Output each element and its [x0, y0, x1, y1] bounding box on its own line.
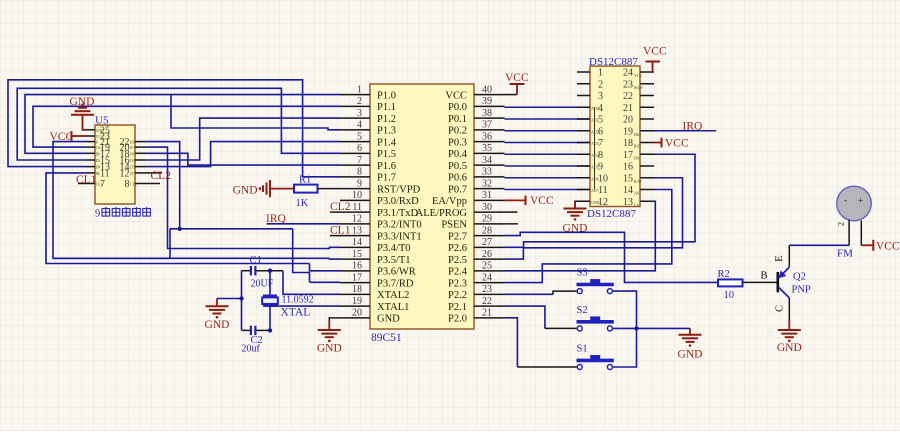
svg-text:37: 37	[482, 120, 492, 131]
svg-text:P3.5/T1: P3.5/T1	[377, 255, 411, 266]
svg-text:12: 12	[120, 168, 130, 179]
89C51 pin 13 P3.3/INT1	[340, 235, 370, 237]
DS12C887 pin 20	[640, 118, 654, 120]
DS12C887 pin 14	[640, 189, 654, 191]
svg-text:P1.3: P1.3	[377, 126, 396, 137]
svg-text:-: -	[844, 195, 847, 205]
power VCC at FM	[861, 244, 873, 246]
89C51 pin 22 P2.1	[474, 305, 505, 307]
svg-text:8: 8	[357, 167, 362, 178]
net label CL2 (pin11)	[330, 211, 340, 213]
svg-text:AD7: AD7	[591, 188, 599, 193]
89C51 pin 39 P0.0	[474, 105, 505, 107]
89C51 U? chip body	[370, 84, 474, 329]
DS12C887 pin 22	[640, 95, 654, 97]
svg-text:19: 19	[352, 296, 362, 307]
svg-text:VCC: VCC	[876, 240, 900, 252]
svg-text:P0.4: P0.4	[448, 149, 468, 160]
DS12C887 pin 21	[640, 106, 654, 108]
svg-text:22: 22	[482, 296, 492, 307]
wire S2 right	[613, 327, 637, 329]
svg-text:P2.2: P2.2	[448, 290, 467, 301]
svg-text:VCC: VCC	[50, 131, 74, 143]
U5 pin 20	[135, 146, 145, 148]
DS12C887 pin 13	[640, 200, 654, 202]
wire riser x292.7 to P3.7	[293, 229, 310, 282]
svg-text:P2.6: P2.6	[448, 243, 467, 254]
svg-text:4: 4	[357, 120, 362, 131]
svg-text:GND: GND	[777, 342, 802, 354]
svg-text:E: E	[774, 255, 785, 261]
svg-text:P3.0/RxD: P3.0/RxD	[377, 196, 419, 207]
DS12C887 pin 18	[640, 142, 654, 144]
svg-text:S2: S2	[577, 305, 588, 316]
svg-text:AD5: AD5	[591, 165, 599, 170]
svg-text:7: 7	[357, 155, 362, 166]
89C51 pin 11 P3.1/TxD	[340, 211, 370, 213]
svg-text:14: 14	[352, 237, 362, 248]
svg-text:P2.3: P2.3	[448, 278, 467, 289]
svg-text:GND: GND	[70, 96, 95, 108]
transistor Q2	[776, 272, 779, 292]
svg-text:DS12C887: DS12C887	[589, 56, 638, 68]
svg-text:12: 12	[352, 214, 362, 225]
junction	[178, 227, 182, 231]
89C51 pin 8 P1.7	[340, 176, 370, 178]
svg-text:D3: D3	[130, 159, 135, 163]
svg-text:24: 24	[623, 68, 633, 79]
svg-text:D5: D5	[130, 166, 135, 170]
DS12C887 pin 2	[577, 83, 590, 85]
svg-text:GND: GND	[377, 314, 400, 325]
89C51 pin 14 P3.4/T0	[340, 246, 370, 248]
89C51 pin 27 P2.6	[474, 246, 505, 248]
89C51 pin 31 EA/Vpp	[474, 199, 505, 201]
svg-text:P0.0: P0.0	[448, 102, 467, 113]
svg-text:23: 23	[482, 284, 492, 295]
wire U5 pin22 drop to y228.8	[145, 142, 180, 229]
wire P0.5 (pin34) to DS12C887 pin9	[505, 165, 591, 167]
svg-text:DS12C887: DS12C887	[587, 208, 636, 220]
svg-text:AD4: AD4	[591, 153, 599, 158]
svg-text:18: 18	[623, 138, 633, 149]
svg-text:P1.4: P1.4	[377, 137, 397, 148]
U5 pin 12	[135, 172, 145, 174]
DS12C887 pin 15	[640, 177, 654, 179]
svg-text:CL2: CL2	[151, 170, 172, 182]
U5 pin 14	[135, 166, 145, 168]
net label IRQ at DS pin19	[654, 130, 716, 132]
svg-text:1K: 1K	[296, 198, 309, 209]
svg-text:11: 11	[598, 185, 608, 196]
U5 pin 15	[86, 159, 95, 161]
svg-text:RST: RST	[634, 144, 642, 149]
svg-text:11: 11	[352, 202, 362, 213]
89C51 pin 36 P0.3	[474, 141, 505, 143]
wire P0.2 (pin37) to DS12C887 pin6	[505, 130, 591, 132]
89C51 pin 33 P0.6	[474, 176, 505, 178]
ground at DS pin12	[575, 201, 577, 208]
svg-text:Q2: Q2	[793, 272, 806, 283]
ground at pin20	[329, 318, 340, 321]
svg-text:17: 17	[352, 272, 362, 283]
wire P0.6 (pin33) to DS12C887 pin10	[505, 177, 591, 179]
svg-text:13: 13	[623, 197, 633, 208]
89C51 pin 30 ALE/PROG	[474, 211, 505, 213]
svg-text:89C51: 89C51	[371, 332, 402, 344]
svg-text:ALE/PROG: ALE/PROG	[416, 208, 468, 219]
power VCC at U5 pin23	[72, 135, 87, 137]
power VCC at DS pin24	[652, 62, 654, 73]
U5 pin 25	[86, 129, 95, 131]
wire P1.1(pin2) to U5 pin19 loop	[33, 106, 340, 147]
89C51 pin 35 P0.4	[474, 152, 505, 154]
svg-text:24: 24	[482, 272, 492, 283]
89C51 pin 12 P3.2/INT0	[340, 223, 370, 225]
power VCC at pin40	[516, 84, 518, 95]
svg-text:25: 25	[482, 261, 492, 272]
svg-text:P1.7: P1.7	[377, 173, 396, 184]
svg-text:P3.7/RD: P3.7/RD	[377, 278, 414, 289]
svg-text:P1.5: P1.5	[377, 149, 396, 160]
wire P2.7(pin28) to R2	[505, 232, 719, 282]
svg-text:VCC: VCC	[530, 195, 554, 207]
svg-text:P3.6/WR: P3.6/WR	[377, 267, 416, 278]
wire P3.5 jog to pin15	[330, 257, 341, 260]
svg-text:10: 10	[352, 190, 362, 201]
U5 pin 17	[86, 152, 95, 154]
svg-text:9: 9	[357, 178, 362, 189]
DS12C887 pin 11	[577, 189, 590, 191]
svg-text:VCC: VCC	[665, 137, 689, 149]
svg-text:19: 19	[623, 126, 633, 137]
svg-text:P0.1: P0.1	[448, 114, 467, 125]
DS12C887 pin 19	[640, 130, 654, 132]
svg-text:35: 35	[482, 143, 492, 154]
svg-text:IRQ: IRQ	[266, 213, 287, 225]
junction buttons gnd	[634, 326, 638, 330]
svg-text:GND: GND	[205, 319, 230, 331]
svg-text:15: 15	[623, 173, 633, 184]
svg-text:33: 33	[482, 167, 492, 178]
svg-text:AS: AS	[634, 191, 639, 196]
svg-text:VCC: VCC	[634, 73, 643, 78]
wire R2 to Q2 base	[743, 281, 777, 283]
svg-text:P2.4: P2.4	[448, 267, 468, 278]
wire P1.2(pin3) to U5 pin16	[145, 118, 340, 160]
wire S3 right down to S1 right	[613, 291, 637, 367]
svg-text:PNP: PNP	[792, 285, 811, 296]
DS internal AD bus line	[594, 107, 596, 189]
89C51 pin 3 P1.2	[340, 117, 370, 119]
wire DS pin14 to P2.3(pin24)	[505, 190, 672, 283]
wire P1.0(pin1) to U5 pin17 loop	[25, 95, 340, 154]
DS12C887 pin 6	[577, 130, 590, 132]
wire U5 pin20 to P3.4(pin14)	[145, 147, 340, 248]
svg-text:GND: GND	[678, 349, 703, 361]
svg-text:27: 27	[482, 237, 492, 248]
resistor R1	[294, 185, 318, 193]
wire P0.3 (pin36) to DS12C887 pin7	[505, 142, 591, 144]
ground at crystal	[239, 296, 243, 300]
pin30 stub ext	[505, 211, 518, 213]
svg-text:IRQ: IRQ	[683, 121, 704, 133]
U5 pin 18	[135, 152, 145, 154]
junction C1 right	[268, 269, 272, 273]
89C51 pin 38 P0.1	[474, 117, 505, 119]
FM lead 2	[860, 221, 862, 246]
svg-text:9: 9	[95, 209, 100, 220]
svg-text:S3: S3	[577, 268, 588, 279]
89C51 pin 9 RST/VPD	[340, 188, 370, 190]
svg-text:P1.0: P1.0	[377, 90, 396, 101]
wire to P3.7(pin17)	[310, 281, 341, 283]
89C51 pin 21 P2.0	[474, 317, 505, 319]
svg-text:3: 3	[357, 108, 362, 119]
DS12C887 pin 9	[577, 165, 590, 167]
DS12C887 pin 24	[640, 71, 654, 73]
89C51 pin 20 GND	[340, 317, 370, 319]
svg-text:R2: R2	[718, 269, 730, 280]
svg-text:VCC: VCC	[643, 46, 667, 58]
svg-text:PSEN: PSEN	[441, 220, 467, 231]
wire P0.1 (pin38) to DS12C887 pin5	[505, 118, 591, 120]
svg-text:5: 5	[357, 131, 362, 142]
89C51 pin 34 P0.5	[474, 164, 505, 166]
DS12C887 pin 12	[577, 200, 590, 202]
wire pin40 to VCC	[505, 94, 518, 96]
svg-text:14: 14	[623, 185, 633, 196]
svg-text:P3.2/INT0: P3.2/INT0	[377, 220, 422, 231]
svg-text:SQW: SQW	[634, 85, 643, 90]
svg-text:P0.3: P0.3	[448, 137, 467, 148]
89C51 pin 1 P1.0	[340, 94, 370, 96]
wire P3.5(pin15) long run	[53, 257, 330, 259]
svg-text:CL2: CL2	[330, 201, 351, 213]
svg-text:39: 39	[482, 96, 492, 107]
wire XTAL2 to pin18	[283, 271, 340, 295]
speaker FM	[837, 186, 872, 221]
U5 pin 7	[78, 183, 95, 185]
wire P0.4 (pin35) to DS12C887 pin8	[505, 153, 591, 155]
svg-text:VCC: VCC	[445, 90, 467, 101]
svg-text:21: 21	[482, 308, 492, 319]
svg-text:10: 10	[724, 290, 735, 301]
svg-text:P1.6: P1.6	[377, 161, 396, 172]
89C51 pin 2 P1.1	[340, 105, 370, 107]
svg-text:FM: FM	[837, 248, 853, 260]
svg-text:13: 13	[352, 225, 362, 236]
svg-text:D7: D7	[130, 172, 135, 176]
svg-text:C1: C1	[250, 255, 262, 266]
svg-text:B: B	[761, 271, 768, 282]
svg-text:P1.2: P1.2	[377, 114, 396, 125]
svg-text:30: 30	[482, 202, 492, 213]
svg-text:32: 32	[482, 178, 492, 189]
svg-text:2: 2	[357, 96, 362, 107]
svg-text:P0.2: P0.2	[448, 126, 467, 137]
svg-text:RS: RS	[130, 141, 134, 145]
svg-text:AD0: AD0	[591, 106, 599, 111]
U5 pin 16	[135, 159, 145, 161]
89C51 pin 16 P3.6/WR	[340, 270, 370, 272]
DS12C887 pin 4	[577, 106, 590, 108]
U5 pin 22	[135, 141, 145, 143]
svg-text:23: 23	[623, 79, 633, 90]
89C51 pin 25 P2.4	[474, 270, 505, 272]
89C51 pin 29 PSEN	[474, 223, 505, 225]
ground at buttons	[689, 328, 691, 334]
89C51 pin 32 P0.7	[474, 188, 505, 190]
svg-text:22: 22	[623, 91, 633, 102]
svg-text:P2.7: P2.7	[448, 231, 467, 242]
wire junction to GND	[637, 327, 691, 329]
svg-text:28: 28	[482, 225, 492, 236]
wire P2.2(pin23) to S3	[505, 293, 554, 295]
svg-text:P3.1/TxD: P3.1/TxD	[377, 208, 419, 219]
svg-text:P3.3/INT1: P3.3/INT1	[377, 231, 422, 242]
svg-text:P0.5: P0.5	[448, 161, 467, 172]
svg-text:AD2: AD2	[591, 129, 599, 134]
U5 pin 23	[86, 135, 95, 137]
svg-text:P2.1: P2.1	[448, 302, 467, 313]
resistor R2	[718, 279, 743, 286]
U5 pin 8	[135, 183, 160, 185]
svg-text:R/W: R/W	[634, 179, 642, 184]
U5 pin12 stub ext	[145, 172, 162, 174]
net label IRQ wire (pin12)	[267, 223, 340, 225]
svg-text:GND: GND	[233, 185, 258, 197]
U5 pin 21	[86, 141, 95, 143]
svg-text:8: 8	[125, 179, 130, 190]
svg-text:38: 38	[482, 108, 492, 119]
crystal Y? body	[269, 271, 271, 296]
net label CL1 (pin13)	[330, 235, 340, 237]
svg-text:31: 31	[482, 190, 492, 201]
power VCC at DS pin18	[654, 142, 661, 144]
DS12C887 pin 5	[577, 118, 590, 120]
U5 pin 13	[86, 166, 95, 168]
svg-text:XTAL2: XTAL2	[377, 290, 409, 301]
svg-text:P1.1: P1.1	[377, 102, 396, 113]
DS12C887 pin 3	[577, 95, 590, 97]
wire P2.0(pin21) to S1	[505, 318, 518, 367]
89C51 pin 17 P3.7/RD	[340, 282, 370, 284]
wire DS pin15 to P2.5(pin26)	[505, 178, 683, 259]
svg-text:10: 10	[598, 173, 608, 184]
89C51 pin 19 XTAL1	[340, 305, 370, 307]
U5 pin 11	[86, 172, 95, 174]
89C51 pin 37 P0.2	[474, 129, 505, 131]
wire horizontal y228.8 to crystal-zone riser	[170, 228, 293, 230]
wire U5 pin21 down-around to P3.7 chain	[53, 142, 170, 259]
svg-text:6: 6	[357, 143, 362, 154]
wire XTAL1 to pin19	[270, 305, 340, 307]
wire P1.5(pin6) to U5 pin15 loop	[17, 88, 340, 160]
power VCC at pin31	[505, 199, 525, 201]
svg-text:GND: GND	[317, 343, 342, 355]
U5 pin 19	[86, 146, 95, 148]
DS12C887 U? chip body	[590, 66, 640, 207]
svg-text:P3.4/T0: P3.4/T0	[377, 243, 411, 254]
89C51 pin 23 P2.2	[474, 293, 505, 295]
wire vertical riser x170	[169, 229, 171, 258]
svg-text:CL2: CL2	[130, 183, 137, 187]
ground at Q2	[778, 329, 801, 331]
wire Q2 emitter up	[788, 245, 790, 267]
svg-text:29: 29	[482, 214, 492, 225]
svg-text:15: 15	[352, 249, 362, 260]
89C51 pin 18 XTAL2	[340, 293, 370, 295]
svg-text:CL1: CL1	[76, 174, 97, 186]
svg-text:40: 40	[482, 84, 492, 95]
junction C2 right	[268, 328, 272, 332]
wire pin16 stub link	[310, 264, 341, 271]
svg-text:CL1: CL1	[96, 183, 103, 187]
svg-text:C: C	[774, 305, 785, 312]
svg-text:R1: R1	[299, 175, 311, 186]
svg-text:18: 18	[352, 284, 362, 295]
svg-text:CS: CS	[634, 202, 639, 207]
wire P1.4(pin5) to U5 pin14	[145, 142, 340, 167]
svg-text:DS: DS	[634, 155, 639, 160]
svg-text:20: 20	[352, 308, 362, 319]
wire Q2 collector down	[788, 298, 790, 321]
89C51 pin 28 P2.7	[474, 235, 505, 237]
svg-text:P0.7: P0.7	[448, 184, 467, 195]
svg-text:34: 34	[482, 155, 492, 166]
89C51 pin 26 P2.5	[474, 258, 505, 260]
wire DS pin13 to P2.4(pin25)	[505, 201, 656, 271]
89C51 pin 6 P1.5	[340, 152, 370, 154]
svg-text:GND: GND	[591, 200, 600, 205]
89C51 pin 5 P1.4	[340, 141, 370, 143]
wire GND to R1	[270, 188, 294, 190]
wire emitter to FM	[789, 244, 849, 246]
svg-text:P2.0: P2.0	[448, 314, 467, 325]
svg-text:IRQ: IRQ	[634, 132, 641, 137]
left vertical C1-C2	[241, 271, 243, 331]
svg-text:R/W: R/W	[130, 146, 137, 150]
svg-text:21: 21	[623, 103, 633, 114]
wire P2.1(pin22) to S2	[505, 306, 545, 328]
89C51 pin 15 P3.5/T1	[340, 258, 370, 260]
svg-text:XTAL: XTAL	[281, 307, 311, 319]
svg-text:36: 36	[482, 131, 492, 142]
svg-text:CL1: CL1	[330, 225, 351, 237]
FM lead 1	[848, 220, 850, 246]
svg-text:AD6: AD6	[591, 176, 599, 181]
svg-text:11.0592: 11.0592	[282, 294, 314, 305]
svg-text:+: +	[858, 197, 863, 207]
DS12C887 pin 1	[577, 71, 590, 73]
svg-text:1: 1	[357, 84, 362, 95]
svg-text:VCC: VCC	[505, 72, 529, 84]
DS12C887 pin 10	[577, 177, 590, 179]
DS12C887 pin 16	[640, 165, 654, 167]
89C51 pin 10 P3.0/RxD	[340, 199, 370, 201]
svg-text:26: 26	[482, 249, 492, 260]
svg-text:16: 16	[623, 162, 633, 173]
svg-text:1: 1	[598, 68, 603, 79]
wire P1.6(pin7) to U5 pin18	[145, 153, 340, 165]
svg-text:EA/Vpp: EA/Vpp	[432, 196, 467, 207]
wire P1.7(pin8) to U5 pin13 loop	[8, 80, 340, 177]
DS12C887 pin 7	[577, 142, 590, 144]
svg-text:AD1: AD1	[591, 118, 599, 123]
DS12C887 pin 8	[577, 153, 590, 155]
svg-text:S1: S1	[577, 344, 588, 355]
